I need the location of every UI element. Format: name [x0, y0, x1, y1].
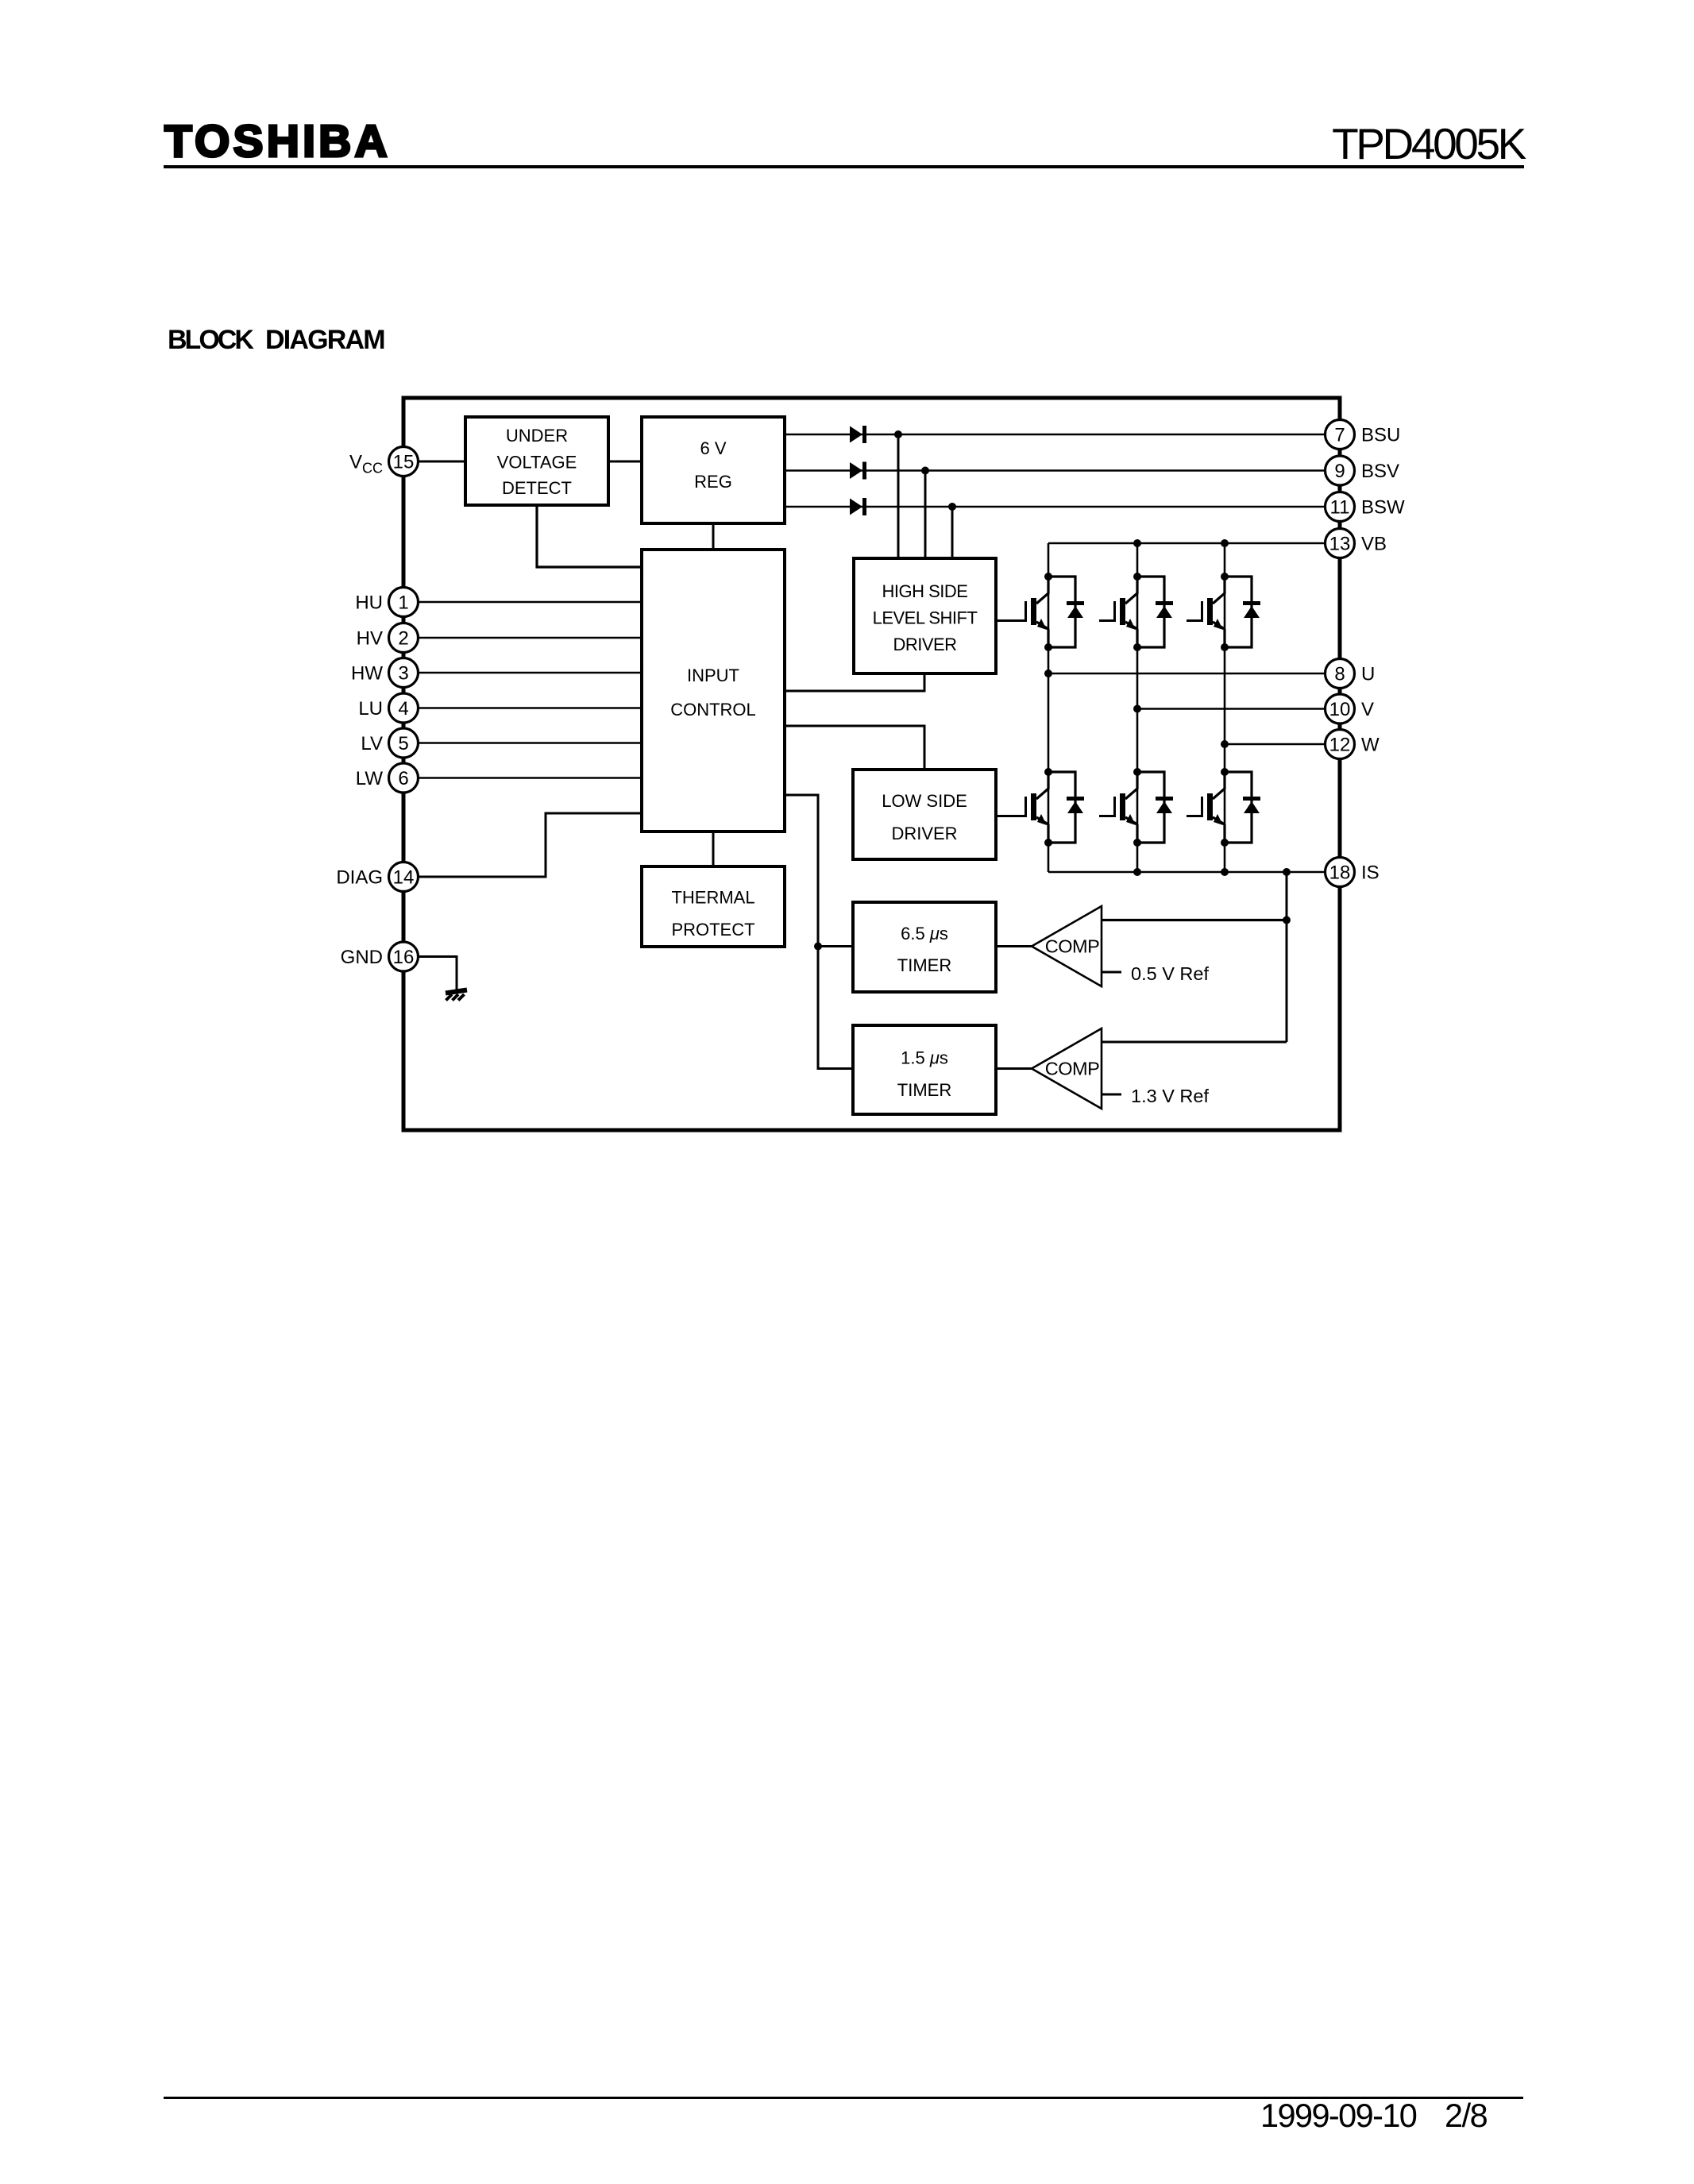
svg-text:U: U	[1361, 664, 1375, 685]
transistor Q6 (low side W) (IGBT)	[1187, 768, 1229, 847]
wire INPUT CONTROL down to timers	[785, 795, 853, 1069]
transistor Q1 (high side U) (IGBT)	[996, 573, 1052, 651]
svg-text:LOW SIDE: LOW SIDE	[882, 791, 967, 811]
svg-text:1: 1	[398, 592, 408, 614]
wire HU to INPUT CONTROL	[403, 601, 642, 604]
svg-text:4: 4	[398, 698, 408, 720]
diode DQ2 (high side V) (freewheel across Q2 (high side V))	[1137, 577, 1173, 647]
svg-text:LV: LV	[361, 733, 383, 754]
wire LU to INPUT CONTROL	[403, 707, 642, 709]
pin 7 BSU	[1325, 420, 1401, 450]
svg-text:0.5 V Ref: 0.5 V Ref	[1131, 963, 1209, 984]
svg-text:DRIVER: DRIVER	[891, 824, 957, 843]
svg-text:BSU: BSU	[1361, 425, 1400, 446]
wire VCC pin to UNDER VOLTAGE DETECT	[403, 461, 465, 463]
block: 6V REG	[642, 417, 785, 523]
wire branch to 6.5us timer	[818, 945, 853, 947]
block: THERMAL PROTECT	[642, 866, 785, 947]
comparator COMP2 U2	[1032, 1028, 1102, 1109]
svg-text:BSW: BSW	[1361, 497, 1405, 519]
pin 18 IS	[1325, 858, 1380, 887]
svg-text:COMP: COMP	[1045, 936, 1100, 957]
svg-text:10: 10	[1329, 699, 1351, 720]
svg-text:9: 9	[1334, 461, 1345, 482]
header rule	[164, 165, 1524, 168]
wire V-phase rail	[1136, 543, 1139, 872]
svg-text:UNDER: UNDER	[506, 426, 568, 446]
svg-text:1.5 μs: 1.5 μs	[901, 1048, 948, 1067]
wire UNDER VOLTAGE DETECT down to INPUT CONTROL	[537, 505, 642, 567]
svg-text:11: 11	[1330, 497, 1350, 519]
wire U output	[1048, 673, 1340, 675]
pin 14 DIAG	[336, 862, 418, 892]
transistor Q3 (high side W) (IGBT)	[1187, 573, 1229, 651]
svg-text:2/8: 2/8	[1445, 2097, 1488, 2134]
comparator COMP1 U1	[1032, 906, 1102, 986]
wire comparator 2 to 1.5us timer	[996, 1067, 1032, 1070]
svg-text:12: 12	[1329, 735, 1351, 756]
pin 16 GND	[341, 942, 419, 971]
svg-text:INPUT: INPUT	[687, 666, 739, 685]
svg-text:PROTECT: PROTECT	[671, 920, 754, 940]
svg-text:TPD4005K: TPD4005K	[1332, 119, 1527, 168]
wire DIAG to INPUT CONTROL	[403, 813, 642, 877]
svg-text:5: 5	[398, 733, 408, 754]
wire 6V REG to BSW pin	[785, 506, 1340, 508]
diode D1 (BSU bootstrap)	[850, 426, 862, 443]
svg-text:LEVEL SHIFT: LEVEL SHIFT	[873, 608, 978, 627]
svg-text:1999-09-10: 1999-09-10	[1260, 2097, 1417, 2134]
pin 11 BSW	[1325, 492, 1406, 522]
diode DQ4 (low side U) (freewheel across Q4 (low side U))	[1048, 772, 1084, 843]
node IS V-rail junction	[1133, 868, 1141, 876]
node sense to comparator 1	[1283, 916, 1291, 924]
wire comparator 1 to 6.5us timer	[996, 945, 1032, 947]
footer rule	[164, 2097, 1523, 2099]
wire 6V REG to BSV pin	[785, 469, 1340, 472]
svg-text:V: V	[1361, 699, 1374, 720]
svg-text:LW: LW	[356, 768, 384, 789]
node U tap	[1044, 669, 1052, 677]
diode D3 (BSW bootstrap)	[850, 499, 862, 515]
svg-text:THERMAL: THERMAL	[671, 887, 754, 907]
svg-text:LU: LU	[358, 698, 383, 720]
svg-text:BLOCK: BLOCK	[168, 325, 254, 355]
svg-text:13: 13	[1329, 534, 1351, 555]
svg-text:15: 15	[393, 452, 415, 473]
transistor Q4 (low side U) (IGBT)	[996, 768, 1052, 847]
svg-text:6 V: 6 V	[700, 438, 726, 458]
transistor Q2 (high side V) (IGBT)	[1099, 573, 1141, 651]
wire INPUT CONTROL to HIGH SIDE driver (bottom entry)	[785, 673, 924, 691]
svg-text:7: 7	[1334, 425, 1345, 446]
block: HIGH SIDE LEVEL SHIFT DRIVER	[854, 558, 996, 673]
svg-text:14: 14	[393, 867, 415, 889]
reference 1.3 V Ref input of COMP2 U2	[1102, 1086, 1209, 1106]
node BSU junction	[894, 430, 902, 438]
svg-text:DETECT: DETECT	[502, 478, 572, 498]
node BSV junction	[921, 467, 929, 475]
diode DQ5 (low side V) (freewheel across Q5 (low side V))	[1137, 772, 1173, 843]
ground	[446, 990, 467, 1001]
wire LW to INPUT CONTROL	[403, 777, 642, 779]
diode D2 (BSV bootstrap)	[850, 462, 862, 479]
node W tap	[1221, 740, 1229, 748]
wire INPUT CONTROL to THERMAL PROTECT	[712, 832, 715, 866]
node V tap	[1133, 705, 1141, 713]
block: LOW SIDE DRIVER	[853, 770, 996, 859]
wire W output	[1225, 743, 1340, 746]
wire current sense line down	[1286, 872, 1288, 1042]
pin 2 HV	[357, 623, 419, 653]
svg-text:6: 6	[398, 768, 408, 789]
wire LV to INPUT CONTROL	[403, 742, 642, 744]
svg-text:IS: IS	[1361, 862, 1380, 884]
svg-text:TIMER: TIMER	[897, 955, 951, 975]
svg-text:HW: HW	[351, 663, 383, 685]
wire U-phase rail	[1048, 543, 1050, 872]
svg-text:HIGH SIDE: HIGH SIDE	[882, 581, 968, 601]
block: 1.5us TIMER	[853, 1025, 996, 1114]
block: INPUT CONTROL	[642, 550, 785, 832]
pin 9 BSV	[1325, 456, 1400, 485]
svg-text:COMP: COMP	[1045, 1059, 1100, 1079]
wire W-phase rail	[1224, 543, 1226, 872]
node IS W-rail junction	[1221, 868, 1229, 876]
wire GND pin to ground	[403, 957, 457, 990]
wire V output	[1137, 708, 1340, 710]
wire BSW junction down to HIGH SIDE driver	[951, 507, 954, 558]
pin 5 LV	[361, 728, 418, 758]
wire HW to INPUT CONTROL	[403, 672, 642, 674]
svg-text:CONTROL: CONTROL	[670, 700, 756, 720]
svg-text:TOSHIBA: TOSHIBA	[164, 116, 391, 167]
svg-text:16: 16	[393, 947, 415, 968]
diode DQ3 (high side W) (freewheel across Q3 (high side W))	[1225, 577, 1260, 647]
wire 6V REG down to INPUT CONTROL	[712, 523, 715, 550]
pin 1 HU	[355, 588, 418, 617]
svg-text:3: 3	[398, 663, 408, 685]
svg-text:VB: VB	[1361, 534, 1387, 555]
svg-text:DRIVER: DRIVER	[893, 635, 956, 654]
svg-text:W: W	[1361, 735, 1380, 756]
svg-text:BSV: BSV	[1361, 461, 1399, 482]
block: 6.5us TIMER	[853, 902, 996, 992]
wire VB bus	[1048, 542, 1340, 545]
svg-text:18: 18	[1329, 862, 1351, 884]
svg-text:2: 2	[398, 628, 408, 650]
diode DQ1 (high side U) (freewheel across Q1 (high side U))	[1048, 577, 1084, 647]
block: UNDER VOLTAGE DETECT	[465, 417, 608, 505]
node IS sense tap	[1283, 868, 1291, 876]
reference 0.5 V Ref input of COMP1 U1	[1102, 963, 1209, 984]
pin 3 HW	[351, 658, 418, 688]
svg-text:DIAG: DIAG	[336, 867, 383, 889]
node BSW junction	[948, 503, 956, 511]
wire 6V REG to BSU pin	[785, 434, 1340, 436]
diode DQ6 (low side W) (freewheel across Q6 (low side W))	[1225, 772, 1260, 843]
pin 10 V	[1325, 694, 1375, 723]
pin 8 U	[1325, 659, 1376, 689]
svg-text:GND: GND	[341, 947, 383, 968]
wire HV to INPUT CONTROL	[403, 637, 642, 639]
wire BSV junction down to HIGH SIDE driver	[924, 471, 927, 559]
svg-text:HU: HU	[355, 592, 383, 614]
svg-text:DIAGRAM: DIAGRAM	[265, 325, 384, 355]
pin 13 VB	[1325, 529, 1387, 558]
wire BSU junction down to HIGH SIDE driver	[897, 434, 900, 558]
node timer branch junction	[814, 943, 822, 951]
svg-text:HV: HV	[357, 628, 383, 650]
svg-text:REG: REG	[694, 472, 732, 492]
svg-text:TIMER: TIMER	[897, 1080, 951, 1100]
wire sense to comparator 1 input	[1102, 919, 1287, 921]
IC outline box	[403, 398, 1340, 1130]
node VB to W-phase rail	[1221, 539, 1229, 547]
svg-text:8: 8	[1334, 664, 1345, 685]
pin 15 VCC	[349, 447, 419, 477]
svg-text:1.3 V Ref: 1.3 V Ref	[1131, 1086, 1209, 1106]
pin 6 LW	[356, 763, 419, 793]
wire sense to comparator 2 input	[1102, 1041, 1287, 1044]
pin 4 LU	[358, 693, 418, 723]
wire UNDER VOLTAGE DETECT to 6V REG	[608, 461, 642, 463]
wire INPUT CONTROL to LOW SIDE driver (top entry)	[785, 726, 924, 770]
node VB to V-phase rail	[1133, 539, 1141, 547]
pin 12 W	[1325, 730, 1380, 759]
svg-text:6.5 μs: 6.5 μs	[901, 924, 948, 943]
svg-text:VOLTAGE: VOLTAGE	[497, 452, 577, 472]
wire IS bus	[1048, 871, 1340, 874]
transistor Q5 (low side V) (IGBT)	[1099, 768, 1141, 847]
